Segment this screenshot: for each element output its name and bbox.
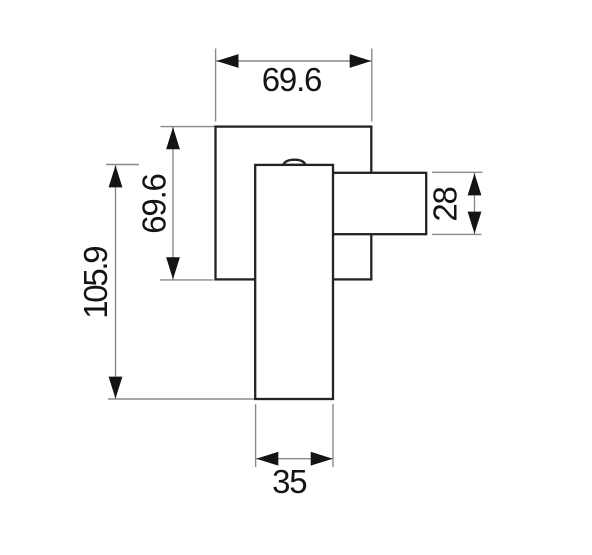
- arrow 28 up: [468, 173, 482, 195]
- extension line 35 left: [255, 404, 257, 467]
- extension tick left upper: [161, 126, 216, 128]
- arrow 105.9 down: [109, 377, 123, 399]
- tap body rectangle: [255, 165, 333, 399]
- svg-text:35: 35: [272, 463, 306, 500]
- extension tick 28 lower: [432, 233, 482, 235]
- extension tick 105.9 upper: [106, 164, 139, 166]
- extension line 35 right: [332, 404, 334, 467]
- extension line 105.9 lower: [108, 398, 255, 400]
- dimension line 69.6 top: [216, 60, 372, 62]
- arrow 28 down: [468, 212, 482, 234]
- svg-text:69.6: 69.6: [262, 61, 321, 98]
- svg-text:69.6: 69.6: [136, 174, 173, 233]
- dimension line 28: [474, 173, 476, 234]
- arrow 69.6 left down: [166, 257, 180, 279]
- spout arm rectangle: [333, 173, 427, 234]
- arrow 35 right: [311, 452, 333, 466]
- arrow 105.9 up: [109, 165, 123, 187]
- svg-text:105.9: 105.9: [77, 247, 114, 319]
- button bump on body top: [283, 160, 305, 165]
- extension line top-right: [371, 49, 373, 122]
- extension line top-left: [215, 49, 217, 122]
- arrow 69.6 top right: [350, 54, 372, 68]
- dimension line 69.6 left: [172, 127, 174, 280]
- dimension line 35: [256, 458, 333, 460]
- extension tick 28 upper: [432, 171, 483, 173]
- extension tick left lower: [160, 279, 214, 281]
- arrow 35 left: [256, 452, 278, 466]
- svg-text:28: 28: [426, 187, 463, 221]
- wall plate square: [216, 127, 372, 280]
- arrow 69.6 left up: [166, 127, 180, 149]
- arrow 69.6 top left: [217, 54, 239, 68]
- dimension line 105.9: [115, 165, 117, 398]
